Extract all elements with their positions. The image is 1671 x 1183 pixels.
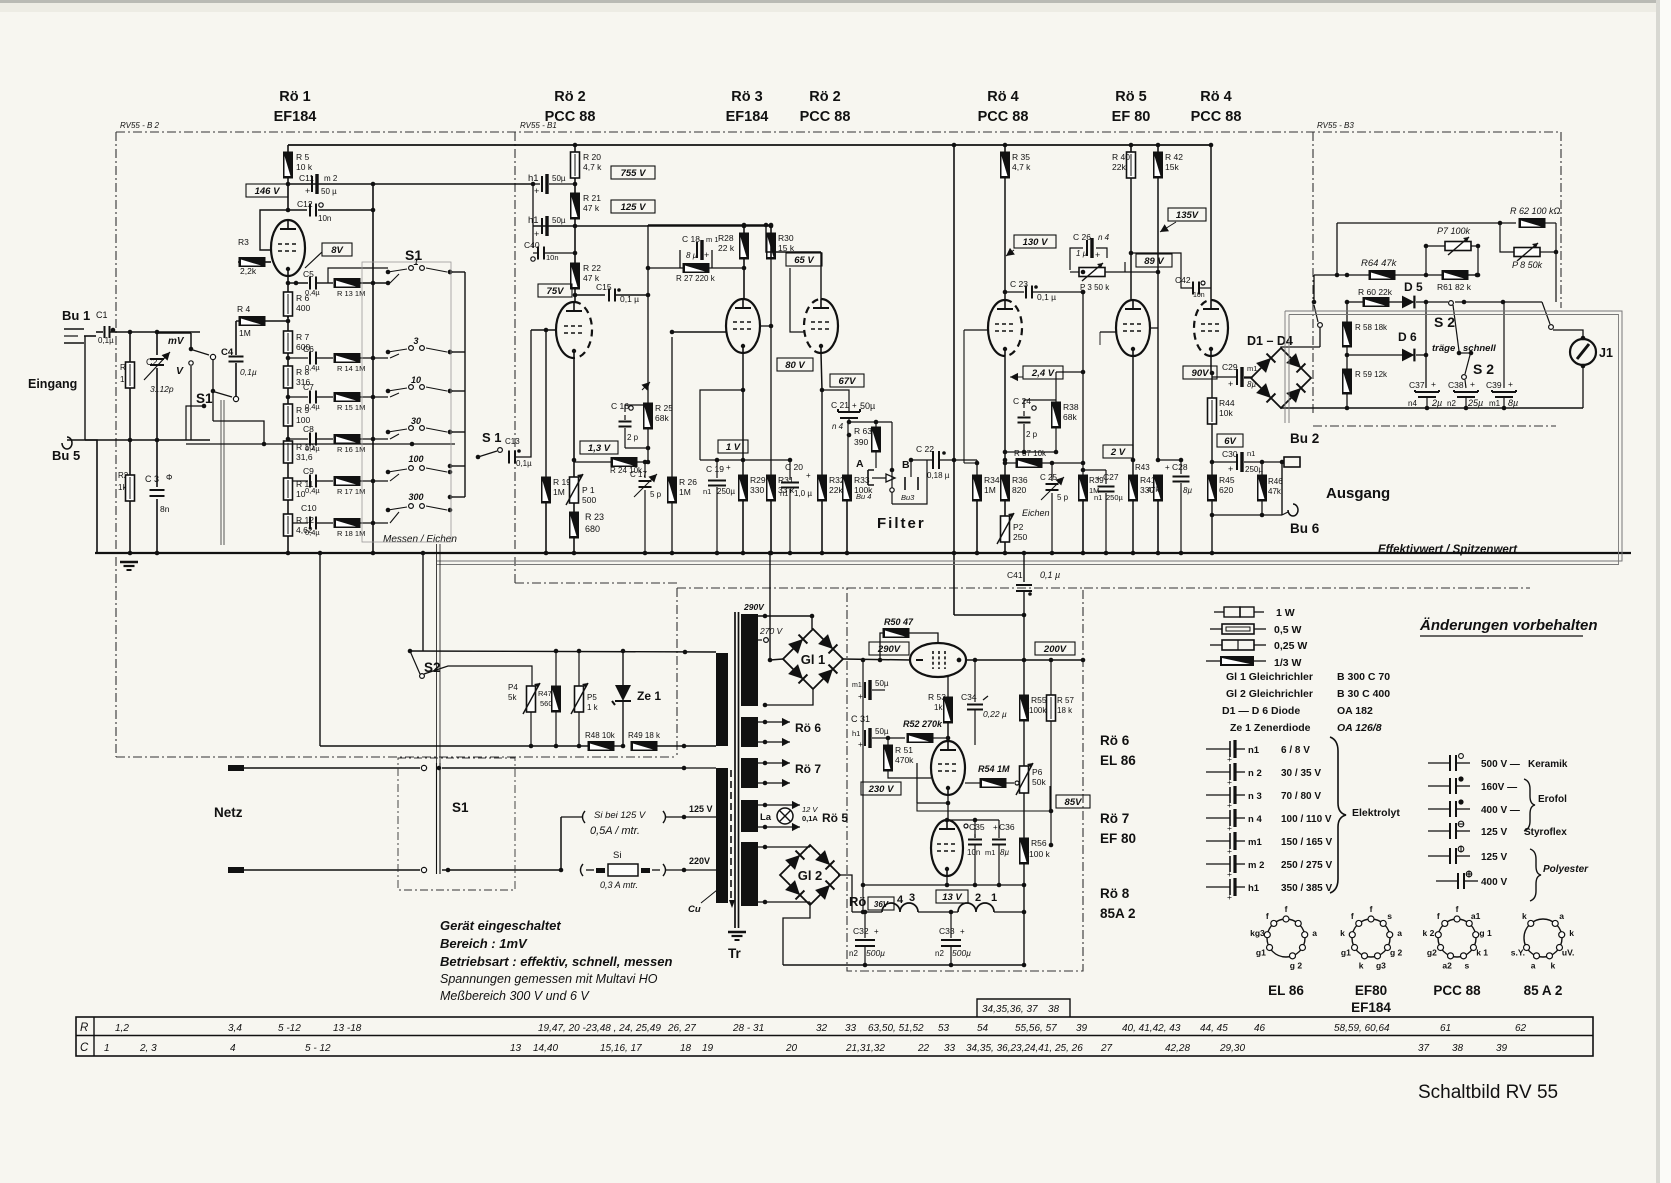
svg-text:Ze 1 Zenerdiode: Ze 1 Zenerdiode	[1230, 722, 1311, 734]
svg-text:1/3 W: 1/3 W	[1274, 657, 1302, 669]
svg-text:uV.: uV.	[1562, 948, 1574, 958]
legend cap Keramik	[1428, 754, 1568, 771]
svg-text:1,3 V: 1,3 V	[588, 443, 611, 454]
svg-text:+: +	[1227, 754, 1232, 764]
svg-text:560: 560	[540, 699, 553, 708]
legend cap Erofol2	[1428, 779, 1567, 831]
capacitor C5 0,4u	[303, 269, 333, 297]
svg-text:R 9: R 9	[296, 405, 310, 415]
resistor R28 22k	[718, 225, 749, 299]
svg-text:g1: g1	[1256, 948, 1266, 958]
svg-text:s: s	[1465, 960, 1470, 970]
wire Gl1 out right	[843, 658, 911, 663]
svg-text:150 / 165 V: 150 / 165 V	[1281, 837, 1332, 848]
diode D6	[1345, 330, 1429, 361]
svg-text:+: +	[1227, 892, 1232, 902]
svg-text:EF80: EF80	[1355, 983, 1387, 998]
resistor R24 10k	[574, 458, 650, 476]
svg-text:Rö: Rö	[849, 894, 866, 909]
capacitor C42 10n	[1131, 253, 1211, 299]
wire Rö3 grid	[670, 330, 726, 335]
svg-text:g1: g1	[1341, 948, 1351, 958]
svg-text:10: 10	[411, 375, 421, 385]
winding Rö7 arrows	[758, 759, 821, 787]
label 2,4V	[1010, 366, 1063, 381]
resistor R15 1M	[334, 393, 388, 413]
svg-text:22 k: 22 k	[718, 243, 735, 253]
svg-text:s.Y.: s.Y.	[1511, 948, 1525, 958]
resistor R35 47k	[1001, 143, 1032, 301]
svg-text:2: 2	[975, 892, 981, 904]
svg-text:P2: P2	[1013, 522, 1024, 532]
legend 0,5W	[1210, 624, 1302, 636]
resistor R4 1M	[236, 304, 290, 338]
wire bridge top out	[1281, 347, 1320, 348]
wire Rö4b anode	[1159, 143, 1213, 300]
wire filter link	[847, 433, 852, 438]
svg-text:PCC 88: PCC 88	[1433, 983, 1481, 998]
svg-text:a1: a1	[1471, 911, 1481, 921]
svg-text:+: +	[858, 740, 863, 749]
resistor R54 1M	[965, 764, 1019, 788]
svg-text:290V: 290V	[877, 644, 901, 655]
svg-text:R 58 18k: R 58 18k	[1355, 323, 1388, 332]
svg-text:C37: C37	[1409, 380, 1425, 390]
svg-text:R 21: R 21	[583, 193, 601, 203]
svg-text:2 V: 2 V	[1110, 447, 1126, 458]
resistor R36 820	[1001, 475, 1028, 516]
svg-text:Rö 5: Rö 5	[822, 811, 848, 825]
label 125V	[611, 200, 655, 213]
label 1V	[718, 440, 748, 453]
resistor R52 270k	[903, 719, 950, 743]
svg-text:R 57: R 57	[1057, 696, 1074, 705]
svg-text:14,40: 14,40	[533, 1043, 558, 1054]
svg-text:+: +	[1165, 463, 1170, 472]
table header C	[80, 1042, 89, 1054]
svg-text:n2: n2	[1447, 399, 1456, 408]
wire Rö7 grid	[905, 763, 1050, 811]
potentiometer P7 100k	[1424, 226, 1478, 275]
wire Rö4b cathode	[1210, 356, 1215, 375]
border RV55-B2 label	[120, 121, 160, 130]
capacitor C26 1u n4	[1070, 232, 1110, 270]
svg-text:8V: 8V	[331, 245, 343, 256]
switch S1 row 30	[386, 416, 453, 439]
bridge Gl1	[783, 629, 843, 689]
legend elco m1	[1206, 832, 1332, 856]
svg-text:P5: P5	[587, 693, 597, 702]
svg-text:0,1 µ: 0,1 µ	[1037, 292, 1056, 302]
svg-text:680: 680	[585, 524, 600, 534]
svg-text:0,22 µ: 0,22 µ	[983, 709, 1007, 719]
svg-text:R 18 1M: R 18 1M	[337, 529, 365, 538]
svg-text:2 p: 2 p	[1026, 430, 1038, 439]
svg-text:R47: R47	[538, 689, 552, 698]
potentiometer P6 50k	[1016, 763, 1046, 838]
svg-text:400: 400	[296, 303, 310, 313]
svg-text:54: 54	[977, 1023, 989, 1034]
svg-text:Rö 3: Rö 3	[731, 89, 762, 105]
svg-text:R34: R34	[984, 475, 1000, 485]
svg-text:500µ: 500µ	[952, 948, 971, 958]
note Geraet eingeschaltet	[440, 918, 561, 933]
svg-text:D 5: D 5	[1404, 280, 1423, 294]
svg-text:R 42: R 42	[1165, 152, 1183, 162]
svg-text:4,7 k: 4,7 k	[1012, 162, 1031, 172]
svg-text:3: 3	[413, 336, 418, 346]
svg-text:+: +	[1096, 474, 1101, 483]
svg-text:n2: n2	[849, 949, 858, 958]
table frame	[76, 1017, 1593, 1056]
svg-text:Keramik: Keramik	[1528, 759, 1568, 770]
resistor R9 100	[284, 404, 311, 441]
capacitor C23 0,1u	[1003, 279, 1086, 302]
svg-text:62: 62	[1515, 1023, 1527, 1034]
pinout PCC88	[1423, 904, 1492, 998]
legend D1-D6 row	[1222, 705, 1373, 717]
switch S1 mains box	[398, 758, 515, 890]
svg-text:Filter: Filter	[877, 515, 926, 532]
svg-text:Messen / Eichen: Messen / Eichen	[383, 534, 457, 545]
svg-text:C 25: C 25	[1040, 473, 1057, 482]
svg-text:R50 47: R50 47	[884, 617, 914, 627]
tube Rö6 EL86	[910, 643, 966, 677]
svg-text:P4: P4	[508, 683, 518, 692]
wire 1V node	[700, 458, 745, 463]
svg-text:m1: m1	[1248, 837, 1262, 848]
svg-text:50µ: 50µ	[860, 401, 875, 411]
svg-text:f: f	[1266, 911, 1269, 921]
svg-text:200V: 200V	[1043, 644, 1067, 655]
svg-text:R 59 12k: R 59 12k	[1355, 370, 1388, 379]
bridge D1-D4	[1247, 334, 1311, 408]
svg-text:Φ: Φ	[166, 473, 172, 482]
svg-text:Rö 2: Rö 2	[809, 89, 840, 105]
tube Rö4b PCC88 half	[1194, 300, 1228, 356]
wire mains lower	[228, 867, 563, 873]
svg-text:53: 53	[938, 1023, 950, 1034]
svg-text:R 7: R 7	[296, 332, 310, 342]
svg-text:EF184: EF184	[726, 109, 769, 125]
svg-text:k 1: k 1	[1476, 948, 1488, 958]
wire Gl1 bottom	[763, 689, 813, 707]
svg-text:Rö 8: Rö 8	[1100, 886, 1130, 901]
capacitor C12 10n	[288, 199, 375, 223]
svg-text:Bu 5: Bu 5	[52, 448, 80, 463]
svg-text:8µ: 8µ	[1508, 398, 1518, 408]
svg-text:R 27 220 k: R 27 220 k	[676, 274, 716, 283]
svg-text:n2: n2	[935, 949, 944, 958]
resistor R14 1M	[334, 354, 388, 374]
capacitor h1 50u b	[528, 215, 566, 239]
svg-text:50 µ: 50 µ	[321, 187, 337, 196]
tube Rö7 EF80	[931, 741, 965, 795]
svg-text:13 V: 13 V	[942, 892, 962, 903]
svg-text:B 300 C 70: B 300 C 70	[1337, 671, 1390, 683]
svg-text:10k: 10k	[1219, 408, 1233, 418]
border B2 bottom	[116, 756, 677, 758]
svg-text:400 V —: 400 V —	[1481, 805, 1520, 816]
svg-text:S 2: S 2	[1473, 361, 1494, 377]
svg-text:Erofol: Erofol	[1538, 794, 1567, 805]
wire 200V down	[1023, 660, 1025, 695]
svg-text:Rö 2: Rö 2	[554, 89, 585, 105]
svg-text:42,28: 42,28	[1165, 1043, 1190, 1054]
table row C values	[104, 1043, 1508, 1054]
transformer Tr primary	[684, 653, 735, 908]
svg-text:m 1: m 1	[706, 235, 719, 244]
svg-text:8n: 8n	[160, 504, 170, 514]
border B2/power gap dashdot	[677, 588, 847, 757]
wire top feedback	[1335, 223, 1516, 277]
svg-text:EF 80: EF 80	[1100, 831, 1136, 846]
capacitor C40 10n	[524, 240, 577, 262]
wire bottom power rail	[783, 912, 1026, 967]
svg-text:R 26: R 26	[679, 477, 697, 487]
svg-text:67V: 67V	[839, 376, 857, 387]
svg-text:R61 82 k: R61 82 k	[1437, 282, 1472, 292]
resistor R59 12k	[1343, 369, 1389, 410]
box S1 light	[362, 262, 451, 542]
svg-text:15,16, 17: 15,16, 17	[600, 1043, 642, 1054]
svg-text:B: B	[902, 459, 910, 471]
svg-text:C8: C8	[303, 424, 314, 434]
capacitor C38 25u n2	[1447, 379, 1483, 410]
heading Rö3 EF184	[726, 89, 769, 125]
svg-text:R45: R45	[1219, 475, 1235, 485]
svg-text:+: +	[534, 229, 539, 239]
transformer secondary 290V	[741, 614, 758, 706]
svg-text:f: f	[1370, 904, 1373, 914]
svg-text:50µ: 50µ	[875, 727, 889, 736]
wire Rö3 top rail	[648, 223, 773, 228]
svg-text:19,47, 20 -23,48 , 24, 25,49: 19,47, 20 -23,48 , 24, 25,49	[538, 1023, 661, 1034]
capacitor C10	[286, 503, 333, 537]
resistor R18 1M	[334, 519, 388, 539]
tube Rö8 85A2	[931, 820, 963, 876]
transformer Tr ground	[728, 932, 746, 961]
svg-text:PCC 88: PCC 88	[978, 109, 1029, 125]
svg-text:75V: 75V	[547, 286, 565, 297]
svg-text:100 / 110 V: 100 / 110 V	[1281, 814, 1332, 825]
svg-text:1k: 1k	[934, 703, 943, 712]
svg-text:C 22: C 22	[916, 444, 934, 454]
svg-text:500 V —: 500 V —	[1481, 759, 1520, 770]
svg-text:+: +	[1095, 250, 1100, 260]
svg-text:1 W: 1 W	[1276, 607, 1295, 619]
legend Gl1 row	[1226, 671, 1390, 683]
svg-text:+: +	[874, 927, 879, 936]
tube Rö3 EF184	[726, 299, 760, 353]
svg-text:R 51: R 51	[895, 745, 913, 755]
svg-text:Gerät eingeschaltet: Gerät eingeschaltet	[440, 918, 561, 933]
svg-text:R28: R28	[718, 233, 734, 243]
svg-text:k: k	[1359, 960, 1364, 970]
resistor R6 400	[284, 292, 311, 331]
svg-text:19: 19	[702, 1043, 714, 1054]
svg-text:J1: J1	[1599, 346, 1613, 360]
svg-text:C 16: C 16	[611, 401, 629, 411]
resistor R19 1M	[542, 477, 572, 555]
legend Gl1	[0, 0, 1, 1]
legend elco n2	[1206, 763, 1321, 787]
resistor R1 1M	[120, 333, 135, 440]
svg-text:620: 620	[1219, 485, 1233, 495]
heading Rö2 PCC88	[545, 89, 596, 125]
label 230V	[861, 782, 901, 795]
capacitor C4 0,1u	[221, 321, 257, 396]
svg-text:0,3 A mtr.: 0,3 A mtr.	[600, 880, 638, 890]
svg-text:220V: 220V	[689, 856, 710, 866]
svg-text:R3: R3	[238, 237, 249, 247]
border B1 left	[515, 132, 677, 583]
wire R64 row	[1314, 273, 1479, 278]
resistor R22 47k	[571, 263, 602, 303]
label 1,3V	[580, 441, 618, 454]
svg-text:1,0 µ: 1,0 µ	[794, 489, 812, 498]
svg-text:R46: R46	[1268, 477, 1283, 486]
svg-text:C 20: C 20	[785, 462, 803, 472]
svg-text:4,7 k: 4,7 k	[583, 162, 602, 172]
resistor R50 47	[880, 617, 938, 660]
svg-text:100 k: 100 k	[1029, 849, 1051, 859]
svg-text:R36: R36	[1012, 475, 1028, 485]
svg-text:+: +	[1227, 846, 1232, 856]
potentiometer P3 50k	[1070, 263, 1125, 292]
linkage S1 thin lines	[437, 544, 441, 874]
svg-text:h1: h1	[1248, 883, 1260, 894]
label Ausgang	[1326, 485, 1390, 502]
bridge Gl2	[780, 845, 840, 905]
svg-text:+: +	[726, 463, 731, 472]
wire Rö4a grid	[964, 330, 988, 463]
note Bereich 1mV	[440, 936, 528, 951]
svg-text:Ze 1: Ze 1	[637, 689, 661, 703]
svg-text:32: 32	[816, 1023, 828, 1034]
note Messbereich	[440, 989, 590, 1003]
ground input	[120, 562, 138, 570]
wire feed P4 row	[318, 551, 323, 746]
svg-text:Ausgang: Ausgang	[1326, 485, 1390, 502]
svg-text:3,4: 3,4	[228, 1023, 242, 1034]
svg-text:1 V: 1 V	[726, 442, 741, 453]
svg-text:2µ: 2µ	[1431, 398, 1442, 408]
choke humps	[863, 903, 1024, 914]
svg-text:0,1µ: 0,1µ	[240, 367, 257, 377]
svg-text:f: f	[1285, 904, 1288, 914]
svg-text:EF184: EF184	[1351, 1000, 1391, 1015]
svg-text:C 31: C 31	[851, 714, 870, 724]
resistor R10 31,6	[284, 441, 315, 478]
svg-text:V: V	[176, 365, 184, 377]
resistor R38 68k	[1052, 372, 1084, 454]
connector Bu2	[1282, 431, 1319, 467]
svg-text:90V: 90V	[1192, 368, 1210, 379]
wire Rö2b anode	[764, 223, 821, 299]
svg-text:250µ: 250µ	[717, 487, 735, 496]
label Netz	[214, 805, 243, 820]
svg-text:Polyester: Polyester	[1543, 864, 1589, 875]
svg-text:0,1 µ: 0,1 µ	[1040, 570, 1060, 580]
svg-text:R 60 22k: R 60 22k	[1358, 287, 1393, 297]
label 80V	[777, 358, 813, 371]
svg-text:Bu 1: Bu 1	[62, 308, 90, 323]
svg-text:68k: 68k	[655, 413, 669, 423]
svg-text:R 16 1M: R 16 1M	[337, 445, 365, 454]
table row R values	[115, 1023, 1527, 1034]
svg-text:28 - 31: 28 - 31	[732, 1023, 764, 1034]
svg-text:RV55 - B1: RV55 - B1	[520, 121, 557, 130]
svg-text:k: k	[1522, 911, 1527, 921]
border B3 inner bottom	[1313, 425, 1556, 427]
svg-text:2,4 V: 2,4 V	[1031, 368, 1055, 379]
label Effektivwert Spitzenwert	[1378, 544, 1518, 556]
svg-text:n 2: n 2	[1248, 768, 1262, 779]
svg-text:P 1: P 1	[582, 485, 595, 495]
svg-text:38: 38	[1452, 1043, 1464, 1054]
svg-text:22k: 22k	[829, 485, 843, 495]
svg-text:500: 500	[582, 495, 596, 505]
svg-text:EL 86: EL 86	[1100, 753, 1136, 768]
svg-text:1M: 1M	[984, 485, 996, 495]
wire h1 left drop	[532, 184, 534, 248]
legend elco n1	[1206, 740, 1310, 764]
resistor R30 15k	[767, 225, 795, 259]
svg-text:125 V: 125 V	[689, 804, 713, 814]
svg-text:C5: C5	[303, 269, 314, 279]
potentiometer P8 50k	[1498, 221, 1559, 270]
resistor R20 4,7k	[571, 143, 603, 193]
svg-text:4,62: 4,62	[296, 525, 313, 535]
svg-text:C10: C10	[301, 503, 317, 513]
svg-text:R 11: R 11	[296, 479, 314, 489]
label 75V	[538, 284, 572, 297]
svg-text:n1: n1	[1094, 493, 1102, 502]
legend cap Styroflex	[1428, 821, 1567, 839]
svg-text:40, 41,42, 43: 40, 41,42, 43	[1122, 1023, 1181, 1034]
title Schaltbild RV 55	[1418, 1082, 1558, 1103]
legend Elektrolyt brace	[1330, 737, 1400, 893]
svg-text:5k: 5k	[508, 693, 517, 702]
svg-text:33: 33	[845, 1023, 857, 1034]
capacitor C37 2u n4	[1408, 379, 1442, 410]
svg-text:755 V: 755 V	[621, 168, 646, 179]
border B2 left	[115, 132, 117, 757]
svg-text:85 A 2: 85 A 2	[1524, 983, 1563, 998]
label Eingang	[28, 377, 77, 391]
svg-text:50µ: 50µ	[552, 216, 566, 225]
svg-text:300: 300	[408, 492, 423, 502]
svg-text:Si: Si	[613, 850, 621, 861]
svg-text:Rö 7: Rö 7	[795, 762, 821, 776]
wire 85V row	[1049, 809, 1054, 814]
svg-text:+: +	[1508, 379, 1513, 389]
svg-text:Bu 4: Bu 4	[856, 492, 871, 501]
svg-text:S 1: S 1	[482, 430, 502, 445]
resistor R2 1k	[118, 440, 135, 555]
svg-text:5 p: 5 p	[650, 490, 662, 499]
tube Rö2a PCC88 half	[556, 302, 592, 358]
svg-text:C 21: C 21	[831, 400, 849, 410]
capacitor C13	[505, 330, 532, 468]
svg-text:R 5: R 5	[296, 152, 310, 162]
potentiometer P4 5k	[508, 683, 540, 748]
svg-text:5 p: 5 p	[1057, 493, 1069, 502]
winding Rö6 arrows	[758, 718, 821, 746]
border bottom-mid box	[1084, 587, 1530, 589]
svg-text:160V —: 160V —	[1481, 782, 1517, 793]
